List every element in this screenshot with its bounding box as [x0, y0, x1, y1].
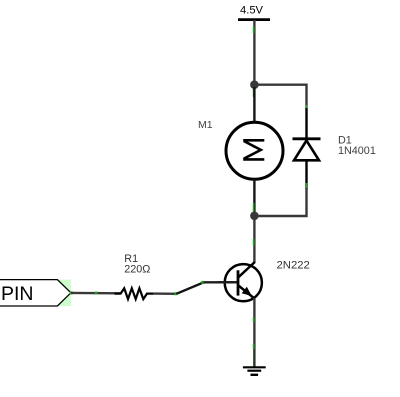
transistor Q1 collector line [238, 262, 255, 278]
svg-text:PIN: PIN [1, 283, 34, 305]
transistor Q1 circle [225, 264, 262, 301]
wire diode bottom to junction B [254, 188, 306, 216]
svg-text:2N222: 2N222 [277, 260, 310, 272]
transistor Q1 base bar [237, 270, 240, 295]
green tick bend 2 [201, 281, 204, 284]
wire junction A to diode branch top [254, 85, 306, 108]
net label PIN text [1, 283, 34, 305]
wire power to junction A [253, 20, 255, 85]
green tick diode bottom pin [306, 183, 308, 189]
svg-text:4.5V: 4.5V [240, 5, 264, 17]
label 2N222 [277, 260, 310, 272]
wire diagonal bend [176, 282, 203, 293]
transistor Q1 base pin [218, 281, 238, 283]
ground pin green segment [253, 349, 255, 366]
wire resistor to bend [153, 292, 176, 295]
wire motor top pin [253, 87, 255, 122]
green tick bend 1 [174, 292, 177, 295]
green tick power pin [253, 26, 255, 33]
svg-text:1N4001: 1N4001 [338, 145, 376, 157]
svg-text:220Ω: 220Ω [124, 264, 150, 276]
motor M1 rotated M glyph [243, 140, 264, 159]
diode D1 triangle [294, 141, 319, 161]
diode D1 bottom pin [305, 160, 307, 189]
green tick motor bottom pin [253, 203, 255, 213]
green tick emitter pin [253, 317, 255, 322]
power supply V1 4.5V bar [238, 18, 270, 21]
node A junction dot top [250, 80, 259, 89]
green tick ground pin [253, 344, 255, 349]
svg-text:M1: M1 [198, 119, 213, 131]
wire emitter to ground [253, 298, 255, 367]
diode D1 cathode bar [293, 137, 321, 140]
node B junction dot bottom [250, 212, 259, 221]
label 1N4001 [338, 145, 376, 157]
motor M1 circle [226, 122, 283, 179]
diode D1 top pin [305, 108, 307, 139]
ground symbol [243, 367, 266, 375]
green tick collector wire end [253, 239, 255, 246]
wire PIN to resistor [71, 292, 121, 295]
net label PIN flag outline [0, 280, 71, 306]
wire junction B to collector [253, 216, 255, 263]
net label PIN terminal green square [57, 280, 71, 306]
transistor Q1 emitter arrow [243, 288, 251, 295]
wire bend to transistor base [204, 281, 237, 283]
label 220ohm [124, 264, 150, 276]
wire motor bottom pin [253, 180, 255, 217]
green tick diode top pin [306, 105, 308, 112]
label R1 [124, 253, 138, 265]
power label 4.5V [240, 5, 264, 17]
label D1 [338, 135, 352, 147]
label M1 [198, 119, 213, 131]
green tick wire after PIN [95, 292, 98, 295]
transistor Q1 emitter line [238, 285, 254, 298]
green dot PIN tip [70, 291, 73, 294]
resistor R1 zigzag [115, 288, 154, 299]
green tick motor top pin [253, 89, 255, 97]
